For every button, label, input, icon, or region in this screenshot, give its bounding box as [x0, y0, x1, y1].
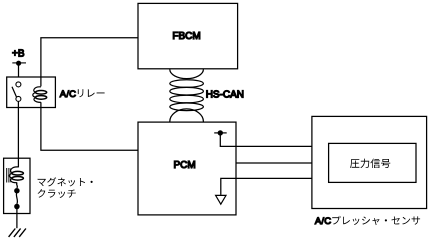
wire coil to terminal dot1 [16, 183, 19, 188]
relay coil L1 [33, 87, 41, 103]
relay switch contact lower [16, 96, 21, 101]
chassis ground symbol [9, 229, 16, 237]
A/C pressure sensor box [312, 116, 427, 208]
wire relay coil to PCM [41, 102, 138, 150]
svg-text:A/C: A/C [60, 89, 76, 100]
svg-text:+B: +B [12, 48, 25, 59]
svg-text:A/C: A/C [315, 216, 331, 227]
magnet clutch box [4, 158, 30, 213]
wire relay coil to FBCM [41, 38, 138, 87]
wire 2 PCM to sensor [236, 162, 312, 164]
clutch coil [9, 167, 18, 183]
ground arrow in PCM [216, 195, 226, 204]
relay switch contact upper [16, 82, 21, 87]
terminal dot 1 [14, 188, 20, 194]
relay switch blade [12, 87, 17, 97]
terminal dot 2 [14, 204, 20, 210]
node junction dot in PCM [214, 132, 227, 134]
label pressure signal [350, 159, 390, 169]
wire 1 PCM to sensor [220, 133, 312, 147]
wire 3 PCM to sensor (signal ground) [221, 178, 312, 195]
svg-text:PCM: PCM [174, 160, 196, 171]
wire between terminals [16, 192, 17, 204]
svg-text:FBCM: FBCM [172, 31, 200, 42]
node: +B junction dot [16, 61, 21, 66]
wire clutch to ground [16, 207, 18, 229]
PCM module box [138, 122, 236, 215]
svg-text:HS-CAN: HS-CAN [206, 89, 244, 100]
label magnet clutch [38, 177, 93, 186]
wire +B to relay [18, 63, 20, 77]
pressure signal inner box [329, 143, 416, 182]
wire relay switch to magnet clutch [17, 102, 19, 168]
relay box (A/C relay) [7, 77, 56, 108]
HS-CAN twisted-pair coil [170, 69, 204, 121]
FBCM module box [138, 3, 238, 68]
clutch core bars [5, 168, 7, 183]
power rail bar [12, 62, 26, 64]
